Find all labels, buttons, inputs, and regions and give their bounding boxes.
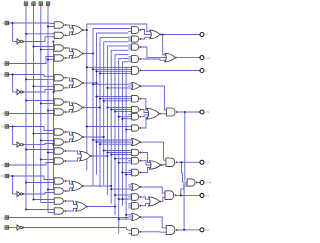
- svg-text:Cou: Cou: [206, 56, 212, 60]
- svg-text:F1: F1: [206, 194, 210, 198]
- svg-text:Cn: Cn: [1, 216, 5, 220]
- svg-text:F2: F2: [206, 161, 210, 165]
- svg-text:A3: A3: [1, 62, 5, 66]
- svg-text:A2: A2: [1, 112, 5, 116]
- svg-text:A1: A1: [1, 163, 5, 167]
- svg-text:B3: B3: [1, 73, 5, 77]
- svg-text:F0: F0: [206, 228, 210, 232]
- svg-text:G: G: [206, 33, 209, 37]
- svg-text:A=B: A=B: [206, 181, 212, 185]
- svg-text:P: P: [206, 69, 208, 73]
- svg-text:B2: B2: [1, 125, 5, 129]
- svg-text:X: X: [3, 226, 5, 230]
- svg-text:B1: B1: [1, 174, 5, 178]
- svg-text:F3: F3: [206, 110, 210, 114]
